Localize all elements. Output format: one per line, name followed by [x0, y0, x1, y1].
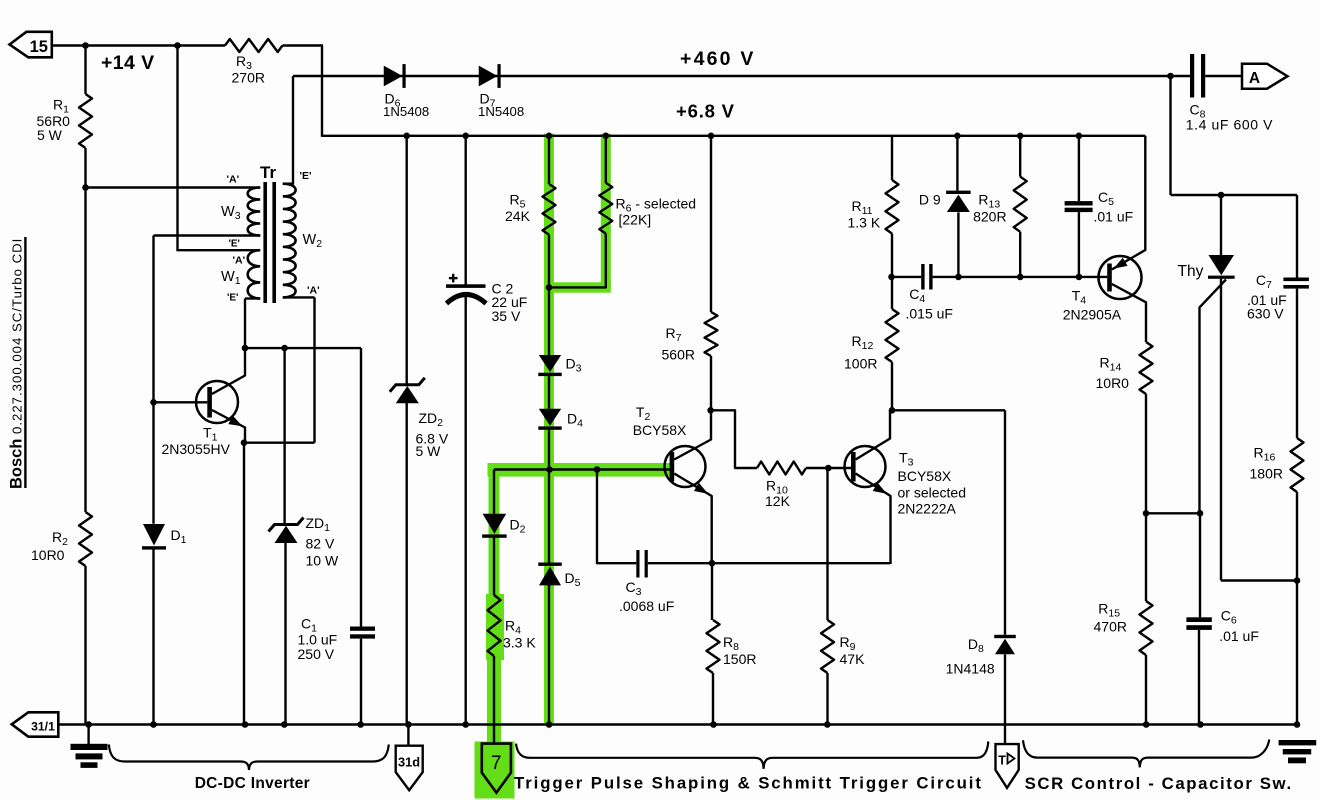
- node junction C2 top: [462, 133, 469, 140]
- node junction T1 emitter / W2-A: [241, 439, 248, 446]
- wire D5 branch upper: [548, 470, 550, 563]
- svg-text:BCY58X: BCY58X: [633, 422, 687, 438]
- bus ground: [58, 723, 1297, 725]
- svg-text:270R: 270R: [232, 70, 265, 86]
- svg-text:.01 uF: .01 uF: [1219, 628, 1259, 644]
- wire +14V rail down: [176, 46, 178, 252]
- wire D4 to trunk: [548, 429, 550, 470]
- wire C8 to terminal A: [1205, 75, 1242, 77]
- svg-text:Bosch 0.227.300.004 SC/Turbo: Bosch 0.227.300.004 SC/Turbo CDI: [8, 238, 26, 489]
- svg-text:5 W: 5 W: [37, 127, 63, 143]
- wire D1 to ground: [152, 549, 154, 725]
- wire rail to R2: [84, 188, 86, 513]
- svg-text:1N5408: 1N5408: [383, 104, 429, 119]
- wire R9 branch: [826, 468, 828, 620]
- wire C5 branch: [1078, 136, 1080, 201]
- transistor T4 circle: [1099, 256, 1142, 299]
- diode D3: [539, 355, 561, 372]
- transformer core bar right: [272, 182, 276, 303]
- diode D8: [994, 635, 1016, 638]
- terminal A: [1242, 64, 1288, 89]
- svg-text:+460 V: +460 V: [680, 48, 756, 70]
- transistor T3 collector: [856, 410, 890, 459]
- bus +460V: [293, 75, 1190, 77]
- wire D8 to terminal TD: [1004, 654, 1006, 745]
- node junction R6 top: [603, 133, 610, 140]
- diode D2: [483, 514, 507, 534]
- capacitor C1: [350, 627, 375, 631]
- node ground junction: [357, 721, 364, 728]
- wire T1 emitter to ground: [243, 443, 245, 725]
- svg-text:Trigger Pulse Shaping & Schmit: Trigger Pulse Shaping & Schmitt Trigger …: [514, 774, 983, 793]
- resistor R14: [1140, 342, 1153, 394]
- resistor R11: [886, 180, 899, 234]
- zener ZD1: [269, 518, 304, 532]
- highlight wire trigger trunk: [488, 463, 672, 477]
- wire W2-E lead: [283, 182, 293, 184]
- svg-text:35 V: 35 V: [492, 308, 521, 324]
- node junction C5 top: [1076, 133, 1083, 140]
- wire collector node to C1 elbow: [245, 347, 361, 349]
- node junction R11/R12/C4: [888, 274, 895, 281]
- highlight wire R4 to terminal 7: [487, 660, 501, 742]
- ground symbol right: [1279, 740, 1317, 745]
- transistor T4 emitter: [1112, 136, 1146, 270]
- wire ZD2 to ground: [406, 403, 408, 725]
- diode D4: [539, 409, 561, 426]
- wire R3 right to elbow: [283, 44, 324, 46]
- wire R6 elbow: [549, 234, 606, 288]
- capacitor C4: [921, 264, 924, 290]
- wire R7 lower: [710, 356, 712, 411]
- wire T3 collector node right: [892, 409, 1005, 411]
- wire C6 upper: [1199, 513, 1201, 617]
- svg-text:T: T: [998, 754, 1006, 768]
- svg-text:47K: 47K: [840, 651, 866, 667]
- svg-text:180R: 180R: [1250, 466, 1283, 482]
- transistor T3 circle: [845, 446, 886, 487]
- svg-text:A: A: [1249, 70, 1260, 87]
- svg-text:1N5408: 1N5408: [478, 104, 524, 119]
- diode D7: [479, 66, 498, 87]
- node ground junction: [405, 721, 412, 728]
- svg-text:31d: 31d: [398, 755, 420, 770]
- capacitor C2: [446, 284, 486, 288]
- node ground junction: [1294, 721, 1301, 728]
- wire Thy cathode: [1220, 279, 1222, 581]
- wire R8 top: [711, 563, 713, 620]
- wire R12 to T3 collector: [891, 362, 893, 411]
- wire D3 to D4: [548, 376, 550, 409]
- capacitor C8: [1190, 54, 1194, 98]
- wire W3-A lead: [86, 186, 261, 188]
- wire W3-E lead: [154, 234, 261, 236]
- node ground junction: [1197, 721, 1204, 728]
- svg-text:2N2222A: 2N2222A: [898, 501, 957, 517]
- wire W1-E lead: [245, 297, 260, 299]
- highlight wire D5 branch: [544, 469, 554, 723]
- node ground junction: [150, 721, 157, 728]
- zener ZD2: [390, 378, 425, 392]
- transistor T1 circle: [196, 381, 238, 423]
- wire R10 elbow: [711, 410, 757, 468]
- node junction ZD2 top: [403, 133, 410, 140]
- node ground junction: [546, 721, 553, 728]
- node ground junction: [242, 721, 249, 728]
- svg-text:'A': 'A': [307, 285, 320, 297]
- wire C7 to R16: [1296, 289, 1298, 438]
- node junction R5/R6: [546, 284, 553, 291]
- resistor R5: [543, 184, 556, 235]
- wire R5 to join: [548, 235, 550, 289]
- node junction trunk/C3: [594, 466, 601, 473]
- transistor T2 emitter: [674, 474, 712, 565]
- resistor R9: [821, 620, 834, 673]
- wire R3 elbow down: [321, 46, 323, 137]
- wire C3 branch: [597, 470, 636, 564]
- resistor R16: [1291, 438, 1304, 492]
- transistor T2 collector: [674, 410, 711, 459]
- resistor R6: [599, 183, 612, 234]
- wire R11 lower: [891, 234, 893, 278]
- node junction +14V rail: [174, 42, 181, 49]
- node junction trunk/D5: [546, 466, 553, 473]
- wire trigger trunk: [494, 468, 672, 470]
- svg-text:.0068 uF: .0068 uF: [619, 598, 674, 614]
- node junction cathode/R16: [1294, 577, 1301, 584]
- svg-text:.015 uF: .015 uF: [906, 306, 953, 322]
- svg-text:24K: 24K: [505, 208, 531, 224]
- wire ZD2 branch: [406, 136, 408, 384]
- svg-text:DC-DC Inverter: DC-DC Inverter: [195, 775, 310, 792]
- thyristor Thy: [1209, 255, 1235, 275]
- node junction R13/C4: [1017, 274, 1024, 281]
- highlight block terminal 7: [475, 742, 515, 799]
- resistor R2: [79, 512, 92, 566]
- wire C2 to ground: [465, 297, 467, 725]
- svg-text:Thy: Thy: [1178, 263, 1204, 280]
- label Bosch part number: [8, 238, 26, 489]
- rule beside Bosch text: [24, 237, 26, 488]
- svg-text:100R: 100R: [844, 356, 877, 372]
- svg-text:10 W: 10 W: [306, 553, 339, 569]
- transistor T1 emitter: [212, 410, 245, 444]
- wire R15 upper: [1145, 513, 1147, 601]
- resistor R8: [707, 620, 720, 673]
- terminal 15: [10, 32, 52, 58]
- resistor R10: [757, 462, 806, 475]
- wire R2 to ground bus: [84, 566, 86, 725]
- diode D9: [946, 191, 971, 194]
- node junction T2 emitter/C3/R8: [709, 560, 716, 567]
- wire R7 upper: [710, 136, 712, 312]
- node junction C8/460V: [1167, 73, 1174, 80]
- svg-text:1.3 K: 1.3 K: [848, 215, 881, 231]
- resistor R15: [1140, 601, 1153, 655]
- svg-text:31/1: 31/1: [31, 720, 55, 734]
- transistor T1 base bar: [207, 387, 212, 418]
- svg-text:470R: 470R: [1094, 619, 1127, 635]
- wire C4 to T4 base: [933, 276, 1108, 278]
- resistor R7: [705, 312, 718, 356]
- node junction 15/R1: [82, 42, 89, 49]
- svg-text:1.4 uF 600 V: 1.4 uF 600 V: [1186, 117, 1273, 133]
- transistor T4 collector: [1112, 284, 1146, 342]
- svg-text:+14 V: +14 V: [101, 52, 155, 74]
- node junction C5/C4: [1076, 274, 1083, 281]
- wire R16 lower: [1296, 492, 1298, 582]
- svg-text:'E': 'E': [229, 239, 240, 250]
- svg-text:82 V: 82 V: [306, 536, 335, 552]
- svg-text:150R: 150R: [723, 651, 756, 667]
- terminal 31/1: [12, 712, 59, 736]
- brace DC-DC Inverter: [109, 745, 389, 771]
- transistor T2 circle: [665, 446, 706, 487]
- svg-text:BCY58X: BCY58X: [898, 468, 952, 484]
- svg-text:Tr: Tr: [260, 163, 276, 182]
- wire R9 to ground: [826, 673, 828, 725]
- svg-text:630 V: 630 V: [1247, 306, 1284, 322]
- wire R1 rail upper: [84, 46, 86, 95]
- wire D5 to ground: [548, 585, 550, 725]
- wire C5 lower: [1078, 212, 1080, 278]
- svg-text:12K: 12K: [765, 493, 791, 509]
- wire Thy anode: [1220, 195, 1222, 255]
- terminal TD: [996, 744, 1019, 788]
- wire R10 to T3 base: [806, 467, 851, 469]
- svg-text:1N4148: 1N4148: [946, 661, 995, 677]
- node junction D9/C4: [955, 274, 962, 281]
- node junction T2 collector: [707, 407, 714, 414]
- transistor T4 base bar: [1107, 264, 1112, 292]
- wire +14V to W1-A: [178, 249, 261, 251]
- svg-text:2N3055HV: 2N3055HV: [162, 441, 231, 457]
- node ground junction: [281, 721, 288, 728]
- highlight wire R5-R6 joining elbow: [544, 282, 611, 292]
- svg-text:'A': 'A': [233, 254, 246, 266]
- thyristor Thy gate lead: [1200, 280, 1227, 515]
- wire R15 to ground: [1145, 655, 1147, 725]
- wire R8 to ground: [712, 673, 714, 725]
- wire R14 lower: [1145, 394, 1147, 514]
- wire R13 lower: [1019, 232, 1021, 278]
- wire R12 top: [891, 277, 893, 309]
- highlight wire R5 branch: [544, 134, 554, 469]
- capacitor C7: [1283, 278, 1309, 282]
- node junction R5 top: [546, 133, 553, 140]
- svg-text:D 9: D 9: [919, 192, 941, 208]
- svg-text:15: 15: [30, 38, 48, 56]
- wire C1 to ground: [360, 639, 362, 725]
- wire 460V down to anode rail: [1169, 76, 1171, 195]
- winding W2: [283, 184, 296, 298]
- transistor T3 base bar: [851, 452, 856, 482]
- wire cathode node to ground: [1296, 581, 1298, 726]
- node junction R7 top: [708, 133, 715, 140]
- wire gate link: [1146, 512, 1200, 514]
- wire R5 upper: [548, 136, 550, 184]
- node junction R1/W3-A: [82, 184, 89, 191]
- winding W3: [248, 188, 261, 236]
- bus +6.8V: [322, 135, 1145, 137]
- svg-text:or selected: or selected: [898, 485, 966, 501]
- wire D9 lower: [957, 212, 959, 278]
- wire R4 to terminal 7: [493, 656, 495, 744]
- capacitor C2 polarity +: [449, 277, 458, 279]
- diode D1: [143, 524, 165, 546]
- wire T1 base lead: [154, 401, 208, 403]
- node junction T1 collector: [242, 345, 249, 352]
- resistor R1: [79, 94, 92, 148]
- wire R13 branch: [1019, 136, 1021, 177]
- transformer core bar left: [263, 182, 267, 303]
- svg-text:560R: 560R: [662, 347, 695, 363]
- transistor T2 base bar: [670, 452, 675, 482]
- svg-text:'E': 'E': [227, 293, 238, 304]
- wire terminal 15 to R3: [52, 44, 225, 46]
- node ground junction: [462, 721, 469, 728]
- node ground junction: [85, 721, 92, 728]
- wire C3 to emitter node: [648, 562, 890, 564]
- node junction ZD1 top: [281, 345, 288, 352]
- terminal 7: [482, 744, 511, 793]
- svg-text:7: 7: [491, 753, 502, 774]
- terminal 31d: [407, 725, 409, 747]
- wire trunk elbow down: [493, 470, 495, 514]
- winding W1: [248, 250, 261, 298]
- brace SCR section: [1023, 740, 1269, 768]
- svg-text:5 W: 5 W: [416, 443, 442, 459]
- svg-text:'A': 'A': [227, 173, 240, 185]
- svg-text:250 V: 250 V: [298, 646, 335, 662]
- svg-text:820R: 820R: [973, 209, 1006, 225]
- svg-text:3.3 K: 3.3 K: [503, 635, 536, 651]
- node junction gate/C6: [1197, 510, 1204, 517]
- resistor R4: [488, 595, 501, 656]
- wire C4 node line: [892, 276, 922, 278]
- capacitor C5: [1065, 201, 1093, 205]
- ground symbol left: [71, 744, 108, 750]
- wire ZD1 to ground: [283, 348, 285, 524]
- wire D9 branch: [956, 136, 958, 191]
- capacitor C3: [636, 550, 639, 578]
- node ground junction: [1143, 721, 1150, 728]
- brace Trigger section: [516, 742, 988, 769]
- wire W2-A lead: [283, 296, 315, 298]
- svg-text:10R0: 10R0: [31, 547, 65, 563]
- node junction R13 top: [1017, 133, 1024, 140]
- node junction T3 base/R9: [825, 465, 832, 472]
- resistor R12: [886, 309, 899, 362]
- transistor T1 collector: [212, 348, 245, 394]
- wire R5R6 node to D3: [548, 287, 550, 355]
- wire C2 branch: [465, 136, 467, 285]
- node junction T1 base: [150, 399, 157, 406]
- node ground junction: [824, 721, 831, 728]
- svg-text:'E': 'E': [300, 170, 312, 182]
- wire base node to D1: [152, 402, 154, 524]
- capacitor C6: [1186, 617, 1211, 622]
- wire C6 to ground: [1198, 630, 1200, 725]
- svg-text:.01 uF: .01 uF: [1094, 209, 1134, 225]
- node junction R14/R15/gate: [1143, 510, 1150, 517]
- highlight wire R4 section: [486, 594, 504, 660]
- resistor R3: [225, 39, 283, 52]
- svg-text:[22K]: [22K]: [619, 212, 652, 228]
- wire C7 upper: [1296, 195, 1298, 278]
- node junction D9 top: [954, 133, 961, 140]
- highlight wire R6 branch: [601, 134, 611, 287]
- wire R11 branch: [891, 136, 893, 180]
- highlight wire D2-R4 branch: [489, 469, 500, 594]
- diode D6: [384, 66, 403, 87]
- node ground junction: [710, 721, 717, 728]
- wire R6 upper: [605, 136, 607, 183]
- svg-text:2N2905A: 2N2905A: [1063, 307, 1122, 323]
- diode D5: [538, 563, 562, 566]
- node junction Thy anode: [1218, 192, 1225, 199]
- svg-text:+6.8 V: +6.8 V: [676, 101, 735, 122]
- transistor T3 emitter: [856, 474, 891, 565]
- svg-text:10R0: 10R0: [1096, 375, 1130, 391]
- wire D2 to R4: [493, 538, 495, 596]
- wire R1 to W3 junction: [84, 148, 86, 189]
- svg-text:SCR Control - Capacitor Sw.: SCR Control - Capacitor Sw.: [1025, 774, 1293, 793]
- node junction T3 collector: [889, 407, 896, 414]
- resistor R13: [1014, 177, 1027, 232]
